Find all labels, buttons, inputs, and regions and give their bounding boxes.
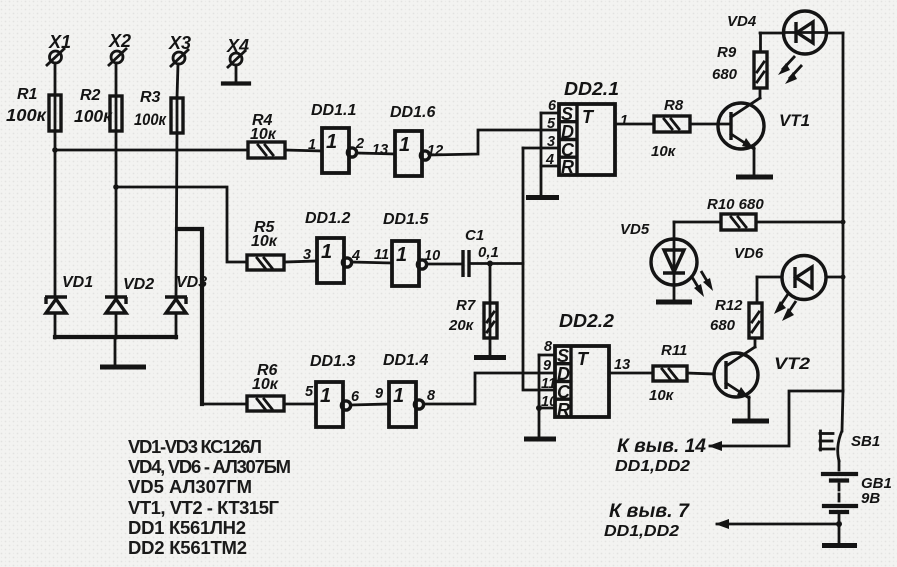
svg-text:R: R bbox=[561, 157, 574, 177]
svg-text:R2: R2 bbox=[80, 87, 101, 104]
svg-text:DD1,DD2: DD1,DD2 bbox=[604, 523, 679, 540]
svg-text:C1: C1 bbox=[465, 227, 484, 244]
svg-text:1: 1 bbox=[620, 113, 628, 129]
svg-text:680: 680 bbox=[710, 317, 736, 334]
svg-text:VT2: VT2 bbox=[774, 355, 810, 373]
svg-text:S: S bbox=[561, 104, 573, 124]
svg-text:DD1.1: DD1.1 bbox=[311, 102, 356, 119]
svg-text:13: 13 bbox=[614, 357, 630, 373]
svg-text:DD1.5: DD1.5 bbox=[383, 211, 429, 228]
svg-text:R10 680: R10 680 bbox=[707, 196, 764, 213]
svg-text:10к: 10к bbox=[649, 387, 675, 404]
svg-text:VD5: VD5 bbox=[620, 221, 650, 238]
svg-text:4: 4 bbox=[351, 248, 360, 264]
svg-text:R8: R8 bbox=[664, 97, 684, 114]
svg-text:VD1: VD1 bbox=[62, 274, 93, 291]
svg-text:3: 3 bbox=[303, 247, 311, 263]
svg-text:DD1,DD2: DD1,DD2 bbox=[615, 458, 690, 475]
svg-text:1: 1 bbox=[393, 385, 404, 407]
svg-text:9: 9 bbox=[375, 386, 383, 402]
svg-text:R3: R3 bbox=[140, 89, 161, 106]
svg-text:VD6: VD6 bbox=[734, 245, 764, 262]
svg-text:VD1-VD3 КС126Л: VD1-VD3 КС126Л bbox=[128, 436, 262, 457]
svg-text:2: 2 bbox=[355, 136, 364, 152]
svg-text:1: 1 bbox=[321, 241, 332, 263]
svg-text:1: 1 bbox=[396, 244, 407, 266]
svg-text:VD4, VD6 - АЛ307БМ: VD4, VD6 - АЛ307БМ bbox=[128, 456, 291, 477]
svg-text:9: 9 bbox=[543, 358, 551, 374]
svg-text:4: 4 bbox=[545, 152, 554, 168]
svg-text:3: 3 bbox=[547, 134, 555, 150]
svg-text:X3: X3 bbox=[168, 33, 191, 53]
svg-text:10к: 10к bbox=[250, 126, 277, 143]
svg-text:VD4: VD4 bbox=[727, 13, 757, 30]
svg-text:C: C bbox=[557, 382, 571, 402]
svg-text:12: 12 bbox=[427, 143, 443, 159]
svg-text:VD3: VD3 bbox=[176, 274, 207, 291]
svg-text:X4: X4 bbox=[226, 36, 249, 56]
svg-text:6: 6 bbox=[548, 98, 557, 114]
svg-text:S: S bbox=[557, 346, 569, 366]
svg-text:DD1 К561ЛН2: DD1 К561ЛН2 bbox=[128, 517, 246, 538]
svg-text:680: 680 bbox=[712, 66, 738, 83]
svg-text:VD2: VD2 bbox=[123, 276, 154, 293]
svg-text:X2: X2 bbox=[108, 31, 131, 51]
svg-text:0,1: 0,1 bbox=[478, 244, 499, 261]
svg-text:R1: R1 bbox=[17, 86, 38, 103]
svg-text:10к: 10к bbox=[251, 233, 278, 250]
svg-text:5: 5 bbox=[305, 384, 314, 400]
svg-text:X1: X1 bbox=[48, 32, 71, 52]
svg-text:100к: 100к bbox=[134, 110, 167, 129]
svg-text:R7: R7 bbox=[456, 297, 476, 314]
svg-text:6: 6 bbox=[351, 389, 360, 405]
svg-text:D: D bbox=[557, 364, 570, 384]
svg-text:R12: R12 bbox=[715, 297, 743, 314]
svg-text:11: 11 bbox=[541, 376, 556, 392]
svg-text:VD5 АЛ307ГМ: VD5 АЛ307ГМ bbox=[128, 476, 252, 497]
svg-text:11: 11 bbox=[374, 247, 389, 263]
svg-text:DD1.3: DD1.3 bbox=[310, 353, 355, 370]
svg-text:100к: 100к bbox=[74, 106, 113, 126]
svg-text:5: 5 bbox=[547, 116, 556, 132]
svg-text:10к: 10к bbox=[252, 376, 279, 393]
svg-text:DD1.4: DD1.4 bbox=[383, 352, 428, 369]
svg-text:DD1.6: DD1.6 bbox=[390, 104, 435, 121]
svg-text:К выв. 14: К выв. 14 bbox=[617, 436, 706, 457]
svg-text:К выв. 7: К выв. 7 bbox=[609, 501, 690, 522]
svg-text:8: 8 bbox=[544, 339, 553, 355]
svg-text:SB1: SB1 bbox=[851, 433, 880, 450]
svg-text:10к: 10к bbox=[651, 143, 677, 160]
svg-text:DD2.2: DD2.2 bbox=[559, 311, 614, 331]
svg-text:VT1: VT1 bbox=[779, 112, 810, 130]
svg-text:R9: R9 bbox=[717, 44, 737, 61]
svg-text:DD1.2: DD1.2 bbox=[305, 210, 350, 227]
svg-text:8: 8 bbox=[427, 388, 436, 404]
svg-text:R: R bbox=[557, 400, 570, 420]
svg-text:D: D bbox=[561, 122, 574, 142]
svg-text:DD2.1: DD2.1 bbox=[564, 79, 619, 99]
svg-text:10: 10 bbox=[541, 394, 557, 410]
svg-text:100к: 100к bbox=[6, 105, 47, 125]
svg-text:20к: 20к bbox=[448, 317, 475, 334]
svg-text:13: 13 bbox=[372, 142, 388, 158]
svg-text:1: 1 bbox=[326, 131, 337, 153]
svg-text:9В: 9В bbox=[861, 490, 880, 507]
svg-text:VT1, VT2 - КТ315Г: VT1, VT2 - КТ315Г bbox=[128, 497, 280, 518]
svg-text:1: 1 bbox=[399, 134, 410, 156]
svg-text:1: 1 bbox=[320, 385, 331, 407]
svg-text:DD2 К561ТМ2: DD2 К561ТМ2 bbox=[128, 537, 247, 558]
svg-text:1: 1 bbox=[308, 137, 316, 153]
svg-text:R11: R11 bbox=[661, 342, 687, 359]
svg-text:10: 10 bbox=[424, 248, 440, 264]
